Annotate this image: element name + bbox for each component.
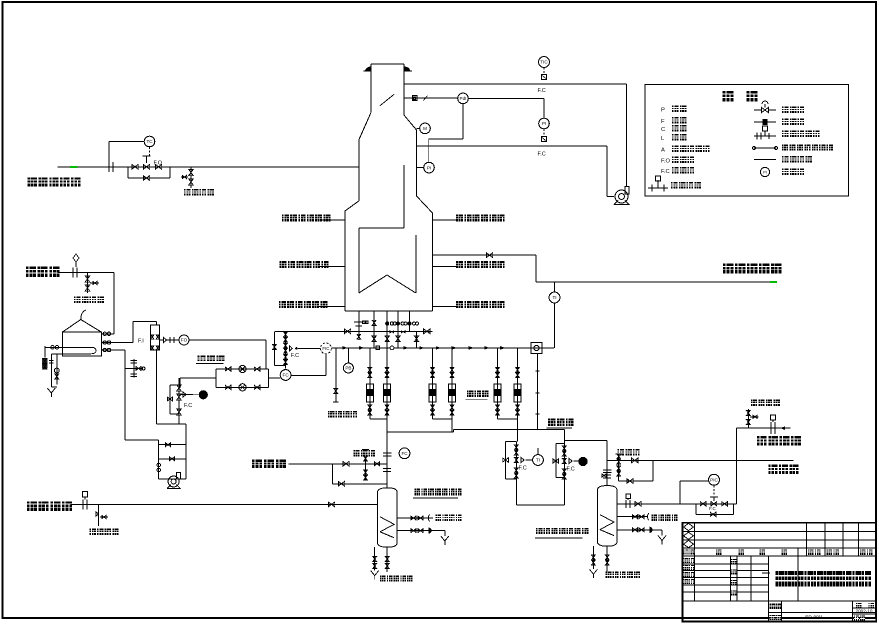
svg-text:F.C: F.C xyxy=(184,403,192,409)
svg-text:F: F xyxy=(661,119,665,125)
svg-text:F.C: F.C xyxy=(661,169,670,175)
svg-text:FC: FC xyxy=(401,451,408,456)
svg-text:F.C: F.C xyxy=(538,152,546,158)
svg-text:TIC: TIC xyxy=(540,60,548,65)
svg-text:F.C: F.C xyxy=(567,467,575,473)
svg-text:PdI: PdI xyxy=(460,96,467,101)
svg-text:PI: PI xyxy=(763,169,767,174)
svg-text:F.I: F.I xyxy=(138,339,144,345)
svg-text:ED-90/1: ED-90/1 xyxy=(805,615,823,621)
svg-text:F.O: F.O xyxy=(661,159,671,165)
svg-text:F.C: F.C xyxy=(519,466,527,472)
svg-text:TI: TI xyxy=(536,458,540,463)
svg-text:F.O: F.O xyxy=(154,161,163,167)
svg-text:PIC: PIC xyxy=(710,477,718,482)
svg-text:TC: TC xyxy=(146,139,153,144)
svg-text:PI: PI xyxy=(427,165,431,170)
svg-text:PI: PI xyxy=(542,121,546,126)
svg-text:FC: FC xyxy=(283,373,290,378)
svg-text:2002-10: 2002-10 xyxy=(856,608,873,613)
svg-text:F.C: F.C xyxy=(709,506,717,511)
svg-text:PB: PB xyxy=(345,366,351,371)
svg-text:FO: FO xyxy=(181,338,188,343)
svg-text:C: C xyxy=(661,127,665,133)
svg-text:TI: TI xyxy=(552,295,556,300)
svg-text:A: A xyxy=(661,148,665,154)
svg-text:P: P xyxy=(661,108,665,114)
svg-text:M: M xyxy=(423,126,427,131)
svg-text:FIC: FIC xyxy=(322,346,329,351)
svg-text:F.C: F.C xyxy=(291,353,299,359)
svg-text:F.C: F.C xyxy=(538,88,546,94)
